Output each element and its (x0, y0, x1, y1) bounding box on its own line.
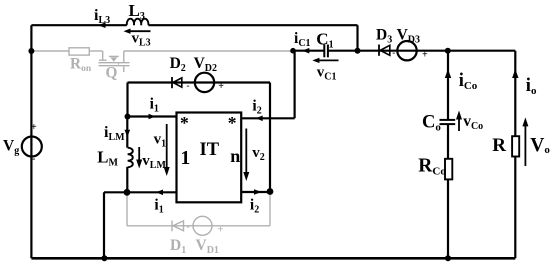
svg-text:*: * (228, 113, 237, 133)
svg-text:R: R (492, 135, 506, 156)
svg-text:+: + (422, 49, 428, 60)
svg-text:+: + (218, 225, 224, 236)
svg-text:-: - (392, 48, 395, 58)
svg-text:-: - (187, 222, 190, 232)
svg-text:-: - (32, 154, 35, 165)
svg-text:IT: IT (200, 140, 220, 160)
svg-text:1: 1 (181, 148, 191, 169)
svg-text:n: n (230, 146, 240, 166)
svg-text:*: * (180, 113, 189, 133)
svg-text:-: - (187, 80, 190, 90)
svg-text:+: + (218, 81, 224, 92)
svg-text:+: + (31, 122, 37, 133)
